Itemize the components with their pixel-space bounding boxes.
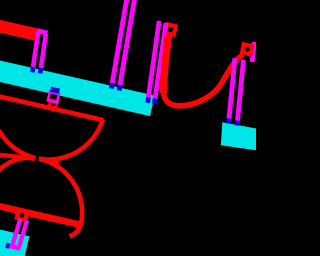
- wire: main cyan bus band: [0, 44, 155, 116]
- wire: lower dome arc right side: [39, 159, 82, 225]
- pin P4 magenta collar: [48, 92, 59, 103]
- pin blue tip of Q1 right leg: [235, 121, 240, 126]
- wire: red trace down from P1: [164, 34, 169, 94]
- wire: lower dome arc left side: [0, 158, 39, 171]
- pin blue tip of R1 right leg: [38, 68, 43, 74]
- wire: upper semicircle arc right part: [38, 119, 103, 159]
- capacitor C1 right leg: [120, 0, 135, 86]
- transistor Q1 right leg: [238, 60, 244, 121]
- connector J3 right leg: [19, 221, 27, 249]
- waist gap (black break over arcs): [36, 150, 39, 166]
- capacitor C1 left leg: [112, 0, 127, 84]
- pad P2 drill hole: [245, 47, 250, 52]
- pad P4 drill hole: [51, 102, 55, 106]
- resistor R1 right leg: [41, 34, 46, 69]
- wire: waist chord line right segment: [39, 159, 59, 164]
- pin blue tip of D1 right leg: [152, 99, 158, 104]
- resistor R1 left leg: [33, 32, 38, 67]
- pin blue tip of D1 left leg: [145, 98, 150, 103]
- wire: lower baseline (thick red): [0, 183, 81, 225]
- pin blue tip of R1 left leg: [30, 67, 35, 73]
- pad P1 through-hole pad: [163, 22, 178, 37]
- pin blue mark at J3 bottom-left: [6, 242, 9, 248]
- wire: upper semicircle arc left part (after waist gap): [0, 130, 34, 158]
- wire: lower-left cyan bus band: [0, 205, 29, 256]
- connector J3 left leg: [12, 219, 20, 247]
- pad P1 drill hole: [168, 27, 173, 32]
- diode D1 right leg: [155, 23, 166, 99]
- transistor Q1 left leg: [229, 58, 235, 119]
- pin P4 blue cap: [51, 89, 60, 91]
- pad P3 on baseline: [14, 208, 30, 222]
- pin blue tip of C1 left leg: [109, 83, 115, 89]
- wire: upper chord line (thin red): [0, 79, 103, 121]
- diode D1 left leg: [148, 21, 159, 98]
- wire: thick red trace W1 top-left: [0, 6, 39, 41]
- pin blue tip of C1 right leg: [117, 85, 123, 91]
- resistor R1 top bar (magenta hairpin): [37, 31, 47, 34]
- pad P2 through-hole pad: [240, 42, 255, 57]
- pin blue tip of Q1 left leg: [226, 119, 231, 124]
- magenta sliver right of pad P2: [252, 42, 254, 62]
- wire: sagging bond wire from P1 trace over to P2: [164, 55, 243, 106]
- wire: right cyan bus band: [221, 122, 258, 150]
- connector J3 bottom bar: [9, 246, 20, 249]
- pad P3 drill hole: [20, 213, 25, 218]
- pad P4 small pad on chord line: [47, 98, 59, 110]
- wire: small tail hook at baseline right end: [70, 225, 81, 237]
- wire: waist chord line left segment: [0, 155, 35, 159]
